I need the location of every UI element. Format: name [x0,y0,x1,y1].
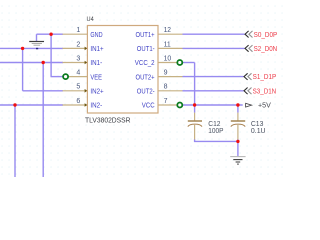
svg-text:10: 10 [164,55,172,62]
wire: pin 11 OUT1- to S2_D0N [183,47,245,49]
svg-text:S0_D0P: S0_D0P [254,32,278,39]
pin 4 stub [68,76,87,78]
svg-text:S2_D0N: S2_D0N [254,46,278,53]
svg-text:9: 9 [164,70,168,77]
pin 2 input arrow [85,47,88,51]
off-page connector S1_D1P [244,73,276,81]
ground (bottom, below C13) [230,157,245,165]
svg-text:OUT1-: OUT1- [137,46,155,53]
svg-text:0.1U: 0.1U [251,128,266,135]
svg-text:IN1-: IN1- [90,60,102,67]
svg-text:OUT2+: OUT2+ [136,74,155,81]
svg-text:IN1+: IN1+ [90,46,103,53]
off-page connector S0_D0P [245,31,277,39]
svg-text:VEE: VEE [90,74,102,81]
pin 8 stub [158,90,183,92]
pin 2 stub [63,47,88,49]
svg-text:IN2+: IN2+ [90,89,103,96]
wire: GND net horizontal to pin 1 [37,33,64,35]
svg-text:TLV3802DSSR: TLV3802DSSR [85,118,131,125]
svg-text:IN2-: IN2- [90,103,102,110]
pin 7 stub [158,104,177,106]
svg-text:7: 7 [164,98,168,105]
wire: C13 bottom / ground stem [237,139,239,156]
wire: C12 bottom corner [194,139,196,142]
svg-text:U4: U4 [87,16,94,23]
wire: IN1- from left edge to pin 3 [0,62,63,64]
pin 10 stub [158,62,177,64]
wire: GND branch vertical x=51 [50,34,52,76]
wire: IN1+ from left edge to pin 2 [0,47,63,49]
pin 9 stub [158,76,183,78]
svg-text:GND: GND [90,32,102,39]
wire: IN2- branch vertical to bottom edge [14,105,16,177]
pin 12 stub [158,33,183,35]
svg-text:S3_D1N: S3_D1N [253,88,277,95]
junction VCC at C12 [193,103,196,106]
junction VCC at C13 [236,103,239,106]
wire: pin 9 OUT2+ to S1_D1P [183,76,244,78]
svg-text:4: 4 [76,70,80,77]
wire: VCC_2 vertical down x=194.6 [194,63,196,106]
pin 3 input arrow [85,61,88,65]
pin 6 input arrow [85,103,88,107]
pin 11 stub [158,47,183,49]
junction on GND net [49,33,52,36]
op-amp U4 body [87,26,158,114]
no-connect circle pin 10 VCC_2 [177,60,182,65]
svg-text:5: 5 [76,84,80,91]
wire: pin 12 OUT1+ to S0_D0P [183,33,245,35]
svg-text:12: 12 [164,27,171,34]
off-page connector S2_D0N [245,45,277,53]
svg-text:S1_D1P: S1_D1P [253,74,277,81]
junction on IN1+ net [21,47,24,50]
off-page connector S3_D1N [244,88,276,96]
capacitor C13 [231,113,245,140]
no-connect circle pin 4 VEE [63,74,68,79]
svg-text:1: 1 [76,27,80,34]
pin 5 input arrow [85,89,88,93]
svg-text:11: 11 [164,41,171,48]
ground (top left) [29,34,44,49]
pin 5 stub [63,90,88,92]
svg-text:OUT1+: OUT1+ [136,32,155,39]
wire: C13 top stub [237,105,239,113]
pin 1 stub [63,33,88,35]
svg-text:6: 6 [76,98,80,105]
wire: IN2- from left edge to pin 6 [0,104,63,106]
wire: pin 7 VCC to +5V arrow [183,104,243,106]
svg-text:OUT2-: OUT2- [137,89,155,96]
power port +5V [246,102,272,109]
wire: branch to IN2+ pin 5 [23,90,63,92]
svg-text:VCC_2: VCC_2 [135,60,155,67]
svg-text:100P: 100P [208,128,223,135]
wire: IN1- branch vertical to bottom edge [42,63,44,178]
wire: bottom wire C12 to C13 [194,140,238,142]
wire: pin 10 VCC_2 to the right [183,62,195,64]
svg-text:+5V: +5V [258,102,271,109]
junction at C13 bottom / ground [236,140,239,143]
wire: IN1+ branch vertical x=22.6 [22,48,24,90]
wire: C12 top stub [194,105,196,113]
junction on IN2- net [13,103,16,106]
wire: GND branch to VEE pin 4 [51,76,64,78]
capacitor C12 [188,113,202,140]
no-connect circle pin 7 VCC [177,103,182,108]
svg-text:VCC: VCC [142,103,155,110]
pin 3 stub [63,62,88,64]
svg-text:2: 2 [76,41,80,48]
junction on IN1- net [42,61,45,64]
svg-text:3: 3 [76,55,80,62]
svg-text:8: 8 [164,84,168,91]
pin 6 stub [63,104,88,106]
wire: pin 8 OUT2- to S3_D1N [183,90,244,92]
